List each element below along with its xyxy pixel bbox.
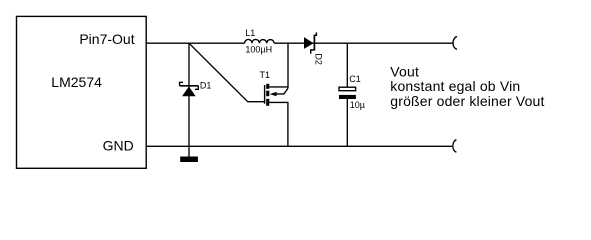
diode D1 cathode bar right hook (195, 86, 198, 90)
diode D2 schottky triangle (304, 37, 314, 49)
svg-text:LM2574: LM2574 (51, 74, 102, 90)
wire D1 branch vertical (node A to ground) (188, 43, 190, 156)
capacitor C1 bottom plate (339, 95, 356, 99)
transistor T1 channel top bar (drain contact) (266, 84, 269, 89)
diode D2 schottky cathode bar (313, 35, 315, 51)
wire top rail right segment (L1 to output terminal) (274, 42, 453, 44)
svg-text:100µH: 100µH (245, 45, 272, 55)
ground symbol (180, 157, 198, 163)
diode D2 cathode bar top hook (314, 32, 316, 35)
svg-text:konstant egal ob Vin: konstant egal ob Vin (390, 78, 520, 94)
diode D1 zener triangle (182, 87, 196, 97)
svg-text:C1: C1 (349, 74, 361, 84)
transistor T1 body arrow (270, 92, 277, 96)
diode D1 zener cathode bar (180, 85, 199, 87)
svg-text:L1: L1 (245, 28, 255, 38)
svg-text:Pin7-Out: Pin7-Out (79, 31, 134, 47)
transistor T1 channel bottom bar (source contact) (266, 99, 269, 106)
svg-text:T1: T1 (260, 70, 271, 80)
IC U1 LM2574 box (17, 16, 147, 168)
output terminal bottom (453, 140, 457, 153)
output terminal top (453, 37, 457, 50)
wire drain lead horizontal of T1 (269, 86, 288, 88)
wire top rail left segment (Pin7-Out to L1) (146, 42, 244, 44)
svg-text:größer oder kleiner Vout: größer oder kleiner Vout (390, 93, 544, 109)
capacitor C1 top plate (339, 87, 356, 91)
wire bottom rail (GND to output terminal) (146, 145, 452, 147)
diode D1 cathode bar left hook (180, 82, 183, 86)
wire gate lead diagonal to T1 (189, 43, 264, 101)
wire body lead of T1 (276, 88, 288, 94)
diode D2 cathode bar bottom hook (311, 50, 315, 54)
svg-text:D2: D2 (313, 53, 323, 65)
wire source lead of T1 (269, 102, 288, 146)
svg-text:Vout: Vout (390, 63, 419, 79)
transistor T1 channel middle bar (body contact) (266, 91, 269, 97)
wire C1 branch top (346, 43, 348, 87)
wire drain lead vertical of T1 (287, 43, 289, 88)
svg-text:D1: D1 (200, 80, 212, 90)
svg-text:10µ: 10µ (350, 100, 365, 110)
transistor T1 gate bar (264, 85, 266, 104)
wire C1 branch bottom (346, 99, 348, 146)
inductor L1 (245, 39, 275, 43)
svg-text:GND: GND (103, 137, 134, 153)
